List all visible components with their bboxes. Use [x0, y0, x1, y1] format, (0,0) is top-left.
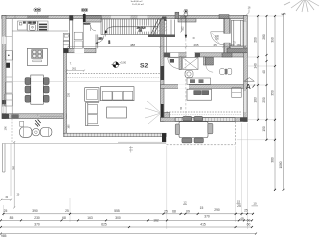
ANNOTATIONS AND DIMENSIONS	[0, 1, 251, 208]
svg-text:415: 415	[200, 222, 206, 226]
svg-text:90/240: 90/240	[84, 24, 91, 26]
wall top black corner TL	[2, 15, 6, 19]
wall bottom left zone	[2, 114, 67, 119]
stair walkline arrowhead	[105, 30, 108, 34]
tall cabinet column fridge	[63, 41, 69, 48]
stair break line	[151, 18, 159, 35]
wall bath divider vertical 1	[179, 57, 182, 70]
svg-text:S2: S2	[140, 63, 149, 70]
wall living east dark segment mid	[161, 66, 165, 80]
wall bottom right dark corner	[240, 118, 247, 122]
kitchen left counter appliance	[5, 51, 12, 60]
grid bubble stack hall	[81, 8, 84, 11]
svg-text:162: 162	[153, 219, 159, 223]
STAIR	[63, 15, 175, 52]
svg-text:12: 12	[183, 201, 187, 205]
grid bubble pair top-left	[34, 8, 38, 12]
svg-text:160: 160	[67, 124, 70, 129]
faint line through dining	[3, 80, 161, 82]
svg-text:102: 102	[182, 26, 185, 31]
wall bottom left dark corner	[2, 114, 9, 119]
wall living east	[161, 19, 165, 122]
lounger round table	[32, 129, 39, 136]
section line x186	[185, 17, 187, 38]
wall black pier at stair entry	[83, 14, 86, 22]
svg-text:40: 40	[262, 70, 266, 74]
pier east of living wall	[164, 113, 170, 120]
dim col 3	[274, 15, 276, 190]
svg-text:190: 190	[4, 126, 7, 131]
island sink bar	[33, 60, 42, 62]
section marker A with roof	[244, 78, 255, 82]
wall bottom right window ticks	[175, 118, 235, 122]
lounger 1	[20, 127, 32, 137]
terrace solid edge left	[2, 143, 166, 145]
FURNITURE	[2, 21, 242, 153]
dim row 1	[4, 213, 254, 215]
svg-text:163: 163	[87, 216, 93, 220]
small box near loungers	[20, 121, 24, 126]
dim row 4 total	[1, 233, 256, 235]
stair treads	[105, 19, 162, 35]
svg-text:15: 15	[237, 200, 241, 204]
hall west wall double	[69, 19, 71, 49]
kitchen dishwasher	[18, 21, 28, 30]
wall bath/bedroom door gap	[178, 84, 189, 89]
kitchen left fridge	[5, 94, 13, 106]
wall bath north hatch segment	[222, 53, 232, 57]
thick wall band over vestibule	[86, 19, 102, 22]
wall bottom door leaf dark	[11, 114, 18, 118]
svg-text:25: 25	[244, 208, 248, 212]
kitchen counter edge left	[11, 19, 13, 114]
svg-text:290: 290	[214, 208, 220, 212]
glazing corner black	[162, 133, 166, 142]
elevation marker +3.00	[112, 61, 127, 68]
svg-text:10: 10	[253, 201, 257, 205]
svg-text:45: 45	[240, 217, 244, 221]
BOTTOM DIMENSION CHAINS	[0, 123, 258, 238]
dim col 1	[257, 15, 259, 120]
outdoor table	[179, 122, 208, 138]
stair text box	[136, 26, 151, 32]
left wall window upper	[2, 37, 6, 45]
svg-text:25: 25	[214, 43, 218, 47]
living coffee table	[107, 107, 127, 118]
bath2 door arc	[206, 65, 213, 72]
wall bath north	[164, 53, 247, 57]
windows above stair	[111, 16, 131, 18]
closet bottom wall hatch	[227, 48, 247, 53]
svg-text:390: 390	[271, 37, 275, 43]
section bubble entry	[184, 9, 188, 13]
bath1 sink	[170, 59, 174, 63]
dining chairs left	[25, 78, 31, 85]
svg-text:P=12,40 m2: P=12,40 m2	[132, 4, 145, 6]
entry door arc	[211, 32, 224, 45]
entry north sill band	[178, 19, 196, 22]
left wall window lower	[2, 107, 6, 114]
svg-text:250: 250	[98, 38, 103, 41]
left wall dark pier	[2, 100, 6, 104]
svg-text:350: 350	[271, 90, 275, 96]
svg-text:09: 09	[186, 210, 190, 214]
dark tick cluster at grid line	[35, 120, 41, 127]
svg-text:15: 15	[200, 206, 204, 210]
dining chairs right	[44, 78, 50, 85]
dim 102 vertical line	[180, 19, 182, 31]
closet room inner box	[232, 20, 244, 46]
kitchen left black appliance	[6, 63, 10, 68]
svg-text:250: 250	[262, 97, 266, 103]
kitchen sink unit	[28, 21, 38, 31]
wall bath north gap	[187, 52, 195, 57]
dim col 4	[283, 14, 285, 190]
svg-text:555: 555	[114, 209, 120, 213]
overhang dashed bedroom	[167, 111, 243, 113]
wall hall/living divider	[64, 48, 97, 53]
bath2 washer	[206, 58, 214, 66]
tiny circle in entry	[193, 37, 195, 39]
svg-text:300: 300	[115, 216, 121, 220]
svg-text:140: 140	[254, 63, 258, 69]
outdoor chairs top	[183, 116, 192, 121]
svg-text:25: 25	[65, 209, 69, 213]
wall living west	[64, 48, 67, 133]
bath1 shower X	[183, 58, 199, 70]
dim row 2	[1, 219, 252, 221]
extension lines down	[4, 123, 248, 229]
stair landing hatch diagonals	[152, 20, 167, 34]
svg-text:230: 230	[34, 216, 40, 220]
wall top division lines	[14, 15, 16, 18]
wall hatch segment entry east	[219, 15, 229, 19]
wall hatched block right of stair entry	[86, 16, 102, 22]
svg-text:25: 25	[237, 204, 241, 208]
wall top	[2, 15, 247, 18]
stair outline	[101, 19, 165, 35]
bedroom bed	[187, 89, 212, 100]
wall bottom window lines	[40, 115, 62, 117]
terrace dashed edge left vertical	[11, 119, 13, 144]
kitchen island	[27, 48, 47, 65]
small marks below glazing	[129, 146, 133, 153]
svg-text:+3,00: +3,00	[120, 61, 127, 65]
bath vanity at wall	[187, 78, 211, 84]
outdoor chairs bottom	[182, 138, 192, 143]
svg-text:7.: 7.	[70, 61, 72, 65]
dark wall band under landing	[148, 35, 175, 38]
hall shoe cabinet	[74, 32, 82, 40]
svg-text:183: 183	[254, 97, 258, 103]
svg-text:60: 60	[247, 222, 251, 226]
bath2 wc	[219, 69, 225, 75]
wall divider dark segment	[64, 48, 69, 53]
svg-text:370: 370	[34, 222, 40, 226]
svg-text:985: 985	[1, 234, 7, 238]
landing right wall lines	[166, 20, 168, 35]
stair walk line with arrow	[106, 27, 158, 31]
wall hatch segment entry	[180, 15, 186, 18]
svg-text:1080: 1080	[279, 161, 283, 168]
kitchen counter divider lines	[5, 36, 12, 38]
outdoor chair right	[208, 123, 213, 133]
dim col 2	[266, 15, 268, 140]
wall bath/bedroom	[161, 85, 248, 89]
living armchair	[85, 88, 99, 102]
wall left outer	[2, 15, 6, 118]
hall east wall lower	[95, 35, 97, 49]
svg-text:200: 200	[254, 37, 258, 43]
dining table	[31, 75, 44, 104]
wall divider door gap	[75, 48, 85, 53]
svg-text:68: 68	[62, 216, 66, 220]
kitchen stove oven	[38, 21, 48, 31]
wall living east dark segment low	[161, 104, 164, 122]
hall east line	[82, 22, 84, 48]
wall pier above top wall	[175, 12, 179, 18]
bath2 bidet	[228, 68, 232, 74]
extension lines right	[237, 16, 284, 140]
light rays symbol at wall	[145, 101, 161, 124]
svg-text:150: 150	[262, 126, 266, 132]
wall entry/closet vertical	[224, 19, 230, 53]
living sofa	[100, 87, 134, 101]
WALLS	[2, 12, 248, 142]
svg-text:295: 295	[194, 43, 199, 47]
svg-text:280: 280	[262, 34, 266, 40]
wall bath divider vertical 2	[204, 57, 206, 65]
sun symbol top right	[284, 0, 319, 12]
svg-text:625: 625	[101, 222, 107, 226]
interior dim line under stair	[67, 46, 247, 48]
overhang dashed living	[67, 73, 161, 75]
svg-text:370: 370	[204, 214, 210, 218]
island cooktop	[32, 50, 43, 59]
window in right wall lower	[244, 91, 247, 112]
left fence below terrace	[2, 144, 4, 172]
sill line below glazing	[118, 141, 166, 143]
kitchen top counter band	[12, 30, 68, 32]
wall bottom right zone	[161, 118, 248, 122]
terrace dashed boundary right	[235, 122, 237, 145]
bedroom dresser	[232, 88, 241, 98]
RIGHT DIMENSION COLUMNS	[237, 13, 286, 191]
svg-text:A: A	[246, 84, 251, 91]
svg-text:390: 390	[32, 209, 38, 213]
wall right outer	[244, 15, 248, 121]
dim row 3	[1, 226, 252, 228]
tall cabinet column oven	[63, 34, 69, 41]
wall top darker window segment	[28, 16, 48, 19]
svg-text:85: 85	[10, 216, 14, 220]
svg-text:261: 261	[72, 68, 77, 71]
hall junction dark block	[69, 15, 73, 20]
hall door arc	[91, 25, 96, 31]
wall bath north dark segment	[195, 53, 200, 57]
outdoor chair left	[175, 124, 179, 135]
glazing south living	[64, 133, 167, 136]
svg-text:380: 380	[271, 157, 275, 163]
grid dashed line x37	[36, 12, 38, 19]
svg-text:25: 25	[164, 210, 168, 214]
svg-text:25: 25	[4, 209, 8, 213]
window in right wall upper	[244, 22, 247, 45]
bath1 door arc	[168, 58, 179, 69]
living sofa2	[86, 103, 100, 126]
lounger 2	[40, 128, 52, 137]
grid dashed line x80.5	[83, 12, 85, 14]
wall black corner TR	[244, 15, 248, 19]
svg-text:/25: /25	[139, 29, 143, 32]
svg-text:488: 488	[130, 43, 135, 47]
svg-text:68: 68	[172, 210, 176, 214]
wall dark window block right of stair	[162, 17, 167, 22]
svg-text:230: 230	[67, 92, 70, 97]
stair curl arc at bottom	[97, 36, 104, 43]
bath1 wc	[185, 71, 193, 78]
